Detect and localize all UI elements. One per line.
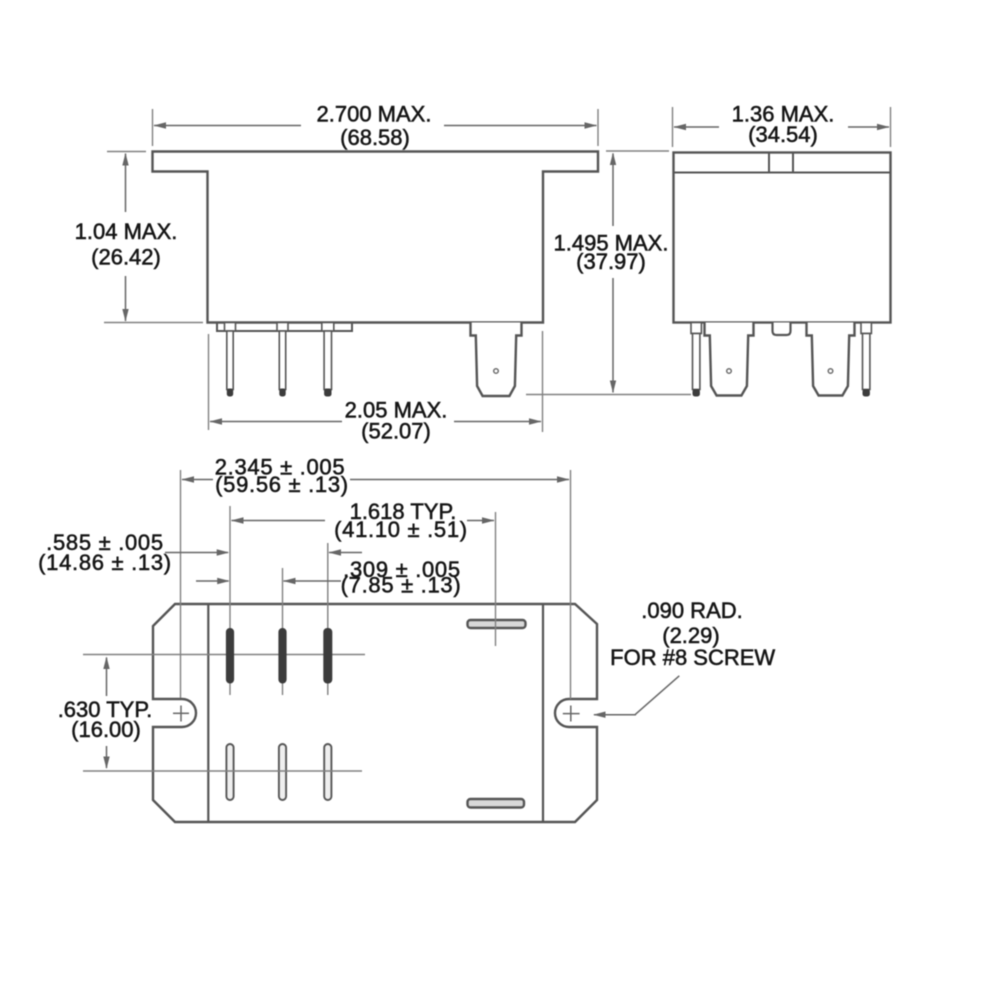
- svg-text:(52.07): (52.07): [361, 419, 431, 444]
- dimension text 1.495 MAX: [550, 226, 674, 278]
- dimension text 1.618 TYP: [334, 499, 468, 542]
- side view left quick-connect tab: [705, 323, 754, 396]
- svg-text:(59.56 ± .13): (59.56 ± .13): [215, 472, 349, 497]
- dimension text 2.700 MAX: [317, 102, 432, 151]
- front view pin 3: [322, 323, 334, 397]
- bottom view left mounting hole cross: [173, 706, 189, 722]
- bottom view upper pin 3: [324, 629, 332, 684]
- side view right pin: [861, 323, 871, 397]
- dimension 1.04 MAX line and arrows: [122, 153, 128, 322]
- dimension 2.05 MAX line and arrows: [210, 418, 542, 424]
- dimension text .585: [38, 530, 172, 575]
- front view relay outline: [153, 152, 599, 323]
- front view pin 1: [225, 323, 236, 397]
- dimension 1.495 MAX line and arrows: [610, 153, 616, 394]
- dimension .630 TYP line and arrows: [103, 657, 109, 770]
- front view pin 2: [277, 323, 288, 397]
- side view top notch: [769, 153, 793, 173]
- dimension text 1.36 MAX: [732, 102, 835, 148]
- svg-text:(26.42): (26.42): [91, 245, 161, 270]
- svg-text:2.700 MAX.: 2.700 MAX.: [317, 102, 432, 127]
- dimension 1.04 MAX extension lines: [104, 152, 203, 323]
- dimension 2.345 extension lines: [181, 470, 571, 699]
- svg-text:FOR #8 SCREW: FOR #8 SCREW: [610, 645, 775, 670]
- pin column 2 extension line: [282, 568, 284, 695]
- svg-text:1.04 MAX.: 1.04 MAX.: [75, 219, 178, 244]
- pin column 3 extension line: [327, 543, 329, 695]
- dimension text 2.345: [215, 455, 349, 498]
- callout text .090 RAD: [610, 598, 775, 670]
- dimension 2.345 line and arrows: [182, 476, 570, 482]
- dimension text .630 TYP: [58, 697, 153, 742]
- side view center nub: [773, 323, 791, 336]
- side view relay outline: [674, 153, 891, 323]
- dimension 2.05 MAX extension lines: [209, 331, 543, 432]
- tab column extension line: [495, 512, 497, 646]
- svg-text:.090 RAD.: .090 RAD.: [641, 598, 743, 623]
- side view cover seam line: [674, 172, 891, 174]
- bottom view lower tab slot: [468, 799, 525, 808]
- bottom view upper tab slot: [468, 620, 526, 628]
- svg-text:(16.00): (16.00): [71, 717, 141, 742]
- dimension text 1.04 MAX: [70, 212, 182, 276]
- dimension text 2.05 MAX: [345, 398, 448, 444]
- dimension 2.700 MAX line and arrows: [154, 122, 598, 128]
- front view quick-connect tab: [471, 323, 522, 397]
- pin column 1 extension line: [229, 506, 231, 695]
- bottom view lower pin 2: [279, 744, 286, 800]
- side view right quick-connect tab: [807, 323, 855, 396]
- dimension .585 arrows: [165, 549, 362, 555]
- svg-text:(7.85 ± .13): (7.85 ± .13): [341, 573, 462, 598]
- svg-text:(14.86 ± .13): (14.86 ± .13): [38, 550, 172, 575]
- dimension 1.36 MAX line and arrows: [674, 124, 890, 130]
- bottom view mounting plate outline: [153, 604, 597, 822]
- svg-text:(68.58): (68.58): [340, 125, 410, 150]
- callout .090 RAD leader: [593, 676, 679, 718]
- dimension text .309: [341, 557, 462, 598]
- svg-text:(41.10 ± .51): (41.10 ± .51): [334, 517, 468, 542]
- dimension 1.36 MAX extension lines: [673, 107, 891, 147]
- bottom view relay body edges: [208, 604, 543, 822]
- dimension 1.618 TYP line and arrows: [231, 517, 495, 523]
- front view base step: [217, 323, 352, 332]
- side view left pin: [691, 323, 701, 397]
- bottom view upper pin 2: [279, 629, 286, 684]
- dimension .630 TYP extension lines: [83, 655, 365, 772]
- svg-text:(37.97): (37.97): [576, 249, 646, 274]
- bottom view lower pin 1: [226, 744, 233, 800]
- bottom view upper pin 1: [226, 629, 233, 684]
- bottom view lower pin 3: [324, 744, 331, 800]
- dimension .309 arrows: [196, 578, 341, 584]
- svg-text:(34.54): (34.54): [748, 122, 818, 147]
- dimension 2.700 MAX extension lines: [153, 109, 599, 146]
- bottom view right mounting hole cross: [563, 706, 580, 722]
- dimension 1.495 MAX extension lines: [526, 151, 691, 395]
